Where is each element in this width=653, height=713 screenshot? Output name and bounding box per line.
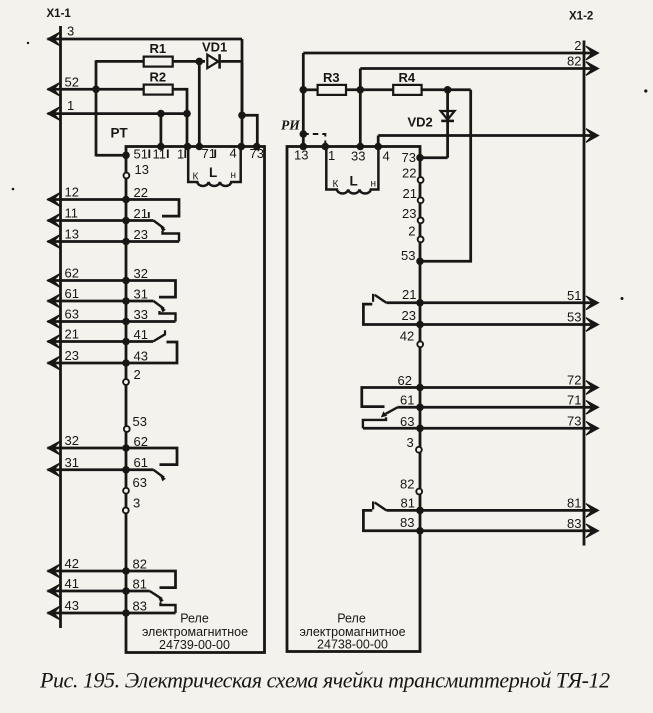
svg-text:33: 33	[351, 149, 365, 164]
wire 63 to X1-2 (73)	[420, 427, 592, 430]
svg-text:61: 61	[65, 286, 79, 301]
svg-text:72: 72	[567, 373, 581, 388]
junction VD2 anode	[444, 86, 452, 94]
wire row 32 bus to relay PT	[48, 447, 127, 450]
arrow X1-1 pin 12	[48, 193, 61, 207]
svg-text:VD2: VD2	[408, 115, 433, 130]
junction pin 71 top	[196, 143, 204, 151]
svg-text:63: 63	[133, 475, 147, 490]
svg-text:23: 23	[134, 227, 148, 242]
pin 42 circle	[417, 341, 423, 347]
contact 41 blade normally-open	[126, 340, 153, 343]
wire row 61 bus to relay PT	[48, 300, 127, 303]
junction pin 1 top	[184, 143, 192, 151]
svg-text:13: 13	[294, 148, 308, 163]
svg-text:53: 53	[401, 248, 415, 263]
arrow X1-2 72	[586, 381, 599, 395]
junction R3 feed	[300, 86, 308, 94]
speck	[621, 297, 624, 300]
junction pin 61 rail	[416, 404, 424, 412]
wire row 11 bus to relay PT	[48, 219, 127, 222]
junction pin 33 top	[357, 143, 365, 151]
junction pin 73 rail	[416, 154, 424, 162]
wire row 42 bus to relay PT	[48, 570, 127, 573]
wire row 43 bus to relay PT	[48, 612, 127, 615]
arrow X1-1 pin 23	[48, 356, 61, 370]
wire row 13 bus to relay PT	[48, 240, 127, 243]
wire row 31 bus to relay PT	[48, 468, 127, 471]
arrow X1-1 pin 43	[48, 606, 61, 620]
contact group 62/61 - wire 62 hook	[126, 448, 177, 465]
wire net 1 horizontal	[48, 112, 189, 115]
contact group 32/31/33 - wire 32 hook	[126, 281, 176, 298]
wire net 3 corner down to VD1 cathode	[241, 39, 244, 115]
junction pin 41	[122, 338, 130, 346]
pin 23 circle	[418, 218, 424, 224]
contact 63 plate (RI)	[363, 427, 420, 430]
svg-text:63: 63	[400, 414, 414, 429]
diode VD1	[207, 55, 218, 69]
svg-text:31: 31	[65, 455, 79, 470]
arrow X1-2 pin4 net	[586, 129, 599, 143]
wire VD1 cathode to corner	[221, 60, 242, 63]
svg-text:2: 2	[574, 38, 581, 53]
svg-text:41: 41	[65, 576, 79, 591]
arrow X1-1 pin 31	[48, 463, 61, 477]
arrow X1-1 pin 61	[48, 294, 61, 308]
wire pin 11 vertical	[160, 114, 163, 147]
svg-text:81: 81	[401, 496, 415, 511]
svg-text:21: 21	[65, 327, 79, 342]
junction pin 21 rail	[416, 299, 424, 307]
relay RI box outline	[287, 147, 420, 652]
svg-text:R1: R1	[150, 41, 167, 56]
svg-text:К: К	[193, 172, 199, 183]
svg-text:4: 4	[230, 146, 237, 161]
junction pin 81 rail	[416, 507, 424, 515]
wire 83 to X1-2	[420, 529, 592, 532]
junction pin 23 rail	[416, 321, 424, 329]
contact 83 plate	[126, 612, 176, 615]
arrow X1-1 pin 21	[48, 335, 61, 349]
svg-text:12: 12	[65, 185, 79, 200]
junction pin 82	[122, 567, 130, 575]
svg-text:62: 62	[134, 434, 148, 449]
junction net52/R1 feed	[92, 86, 100, 94]
wire net 82 horizontal	[360, 67, 592, 70]
resistor R3	[318, 85, 346, 95]
contact 21 blade	[126, 219, 154, 222]
svg-text:51: 51	[567, 288, 581, 303]
contact 81 blade	[126, 590, 150, 593]
svg-text:73: 73	[567, 413, 581, 428]
contact 83 plate (RI)	[363, 510, 420, 530]
svg-text:R3: R3	[323, 70, 340, 85]
svg-text:82: 82	[133, 557, 147, 572]
pin 63 circle	[123, 488, 129, 494]
wire R1 feed top horizontal	[96, 60, 144, 63]
contact 61 blade (RI)	[398, 406, 421, 409]
arrow X1-2 73	[586, 422, 599, 436]
svg-text:н: н	[231, 170, 237, 181]
speck	[644, 89, 647, 92]
wire net 2 horizontal to X1-2	[303, 52, 592, 55]
svg-text:73: 73	[402, 150, 416, 165]
arrow X1-1 pin 13	[48, 235, 61, 249]
junction pin 33	[122, 318, 130, 326]
wire R3 feed	[303, 88, 317, 91]
junction pin 13 top	[300, 143, 308, 151]
svg-text:21: 21	[134, 206, 148, 221]
junction net 82 / pin 33	[357, 86, 365, 94]
contact 61 blade	[126, 468, 154, 471]
svg-text:51: 51	[134, 147, 148, 162]
junction pin 1 top	[322, 143, 330, 151]
arrow X1-1 pin 63	[48, 315, 61, 329]
svg-text:2: 2	[134, 367, 141, 382]
svg-text:L: L	[209, 165, 217, 180]
wire R1 feed vertical	[95, 60, 98, 156]
svg-text:11: 11	[65, 206, 79, 221]
pin tick 51	[148, 150, 150, 159]
svg-text:23: 23	[402, 206, 416, 221]
junction pin 83 rail	[416, 527, 424, 535]
bus X1-2 vertical	[583, 41, 586, 546]
svg-text:2: 2	[408, 224, 415, 239]
wire row 23 bus to relay PT	[48, 362, 127, 365]
wire VD1 cathode vertical to pin 4	[241, 61, 244, 146]
junction pin 53 rail	[416, 258, 424, 266]
svg-text:23: 23	[402, 308, 416, 323]
wire 61 to X1-2 (71)	[420, 406, 592, 409]
svg-text:83: 83	[567, 516, 581, 531]
arrow X1-1 pin 62	[48, 274, 61, 288]
wire R4 right	[422, 88, 471, 91]
svg-text:43: 43	[134, 349, 148, 364]
pin tick 21	[148, 212, 150, 218]
svg-text:К: К	[333, 179, 339, 190]
arrow X1-1 pin 11	[48, 214, 61, 228]
svg-text:23: 23	[65, 348, 79, 363]
svg-text:24739-00-00: 24739-00-00	[159, 638, 230, 652]
contact 23 plate	[126, 240, 179, 243]
contact 81 blade (RI)	[386, 509, 420, 512]
arrow X1-1 pin 1	[48, 107, 61, 121]
svg-text:53: 53	[133, 414, 147, 429]
junction pin 62	[122, 444, 130, 452]
svg-text:42: 42	[65, 556, 79, 571]
svg-text:Реле: Реле	[337, 612, 366, 626]
junction VD1 anode / pin 71	[196, 58, 204, 66]
wire 81 to X1-2	[420, 509, 592, 512]
svg-text:13: 13	[65, 227, 79, 242]
svg-text:63: 63	[65, 307, 79, 322]
wire 21 to X1-2 (51)	[420, 301, 592, 304]
svg-text:22: 22	[402, 166, 416, 181]
svg-text:41: 41	[134, 327, 148, 342]
svg-text:РИ: РИ	[281, 118, 300, 133]
svg-text:82: 82	[567, 54, 581, 69]
svg-text:33: 33	[134, 307, 148, 322]
junction pin 63 rail	[416, 425, 424, 433]
wire R1 to VD1	[173, 60, 205, 63]
svg-text:1: 1	[67, 98, 74, 113]
svg-text:X1-1: X1-1	[47, 8, 72, 20]
svg-text:83: 83	[400, 515, 414, 530]
svg-text:81: 81	[133, 577, 147, 592]
dashed link RI to pin 1	[303, 134, 325, 147]
arrow X1-1 pin 3	[48, 32, 61, 46]
diode VD2	[441, 111, 455, 120]
junction pin 23	[122, 238, 130, 246]
junction RI dashed tap	[300, 130, 308, 138]
svg-text:62: 62	[398, 373, 412, 388]
junction pin 22	[122, 196, 130, 204]
svg-text:VD1: VD1	[202, 40, 227, 55]
svg-text:22: 22	[134, 185, 148, 200]
junction pin 83	[122, 609, 130, 617]
svg-text:53: 53	[567, 310, 581, 325]
junction pin 21	[122, 217, 130, 225]
contact group 62/61/63 (RI) - wire 62 hook	[362, 388, 420, 407]
svg-text:3: 3	[133, 496, 140, 511]
svg-text:83: 83	[133, 599, 147, 614]
junction net1 / pin 11 branch	[157, 110, 165, 118]
junction pin 73 top	[253, 143, 261, 151]
relay PT box outline	[126, 147, 265, 653]
arrow X1-2 83	[586, 524, 599, 538]
svg-text:н: н	[371, 179, 377, 190]
svg-text:81: 81	[567, 495, 581, 510]
svg-text:82: 82	[400, 477, 414, 492]
contact 23 plate (RI)	[363, 304, 420, 324]
bus X1-1 vertical	[59, 26, 62, 628]
pin 2 circle	[123, 379, 129, 385]
pin 2 circle (RI)	[418, 237, 424, 243]
svg-text:4: 4	[383, 149, 390, 164]
contact 21 blade (RI)	[386, 301, 420, 304]
svg-text:R4: R4	[399, 70, 416, 85]
resistor R4	[393, 85, 421, 95]
svg-text:21: 21	[403, 186, 417, 201]
wire pin 4 net horizontal to X1-2	[378, 134, 592, 137]
pin 53 circle	[124, 426, 130, 432]
pin 13 circle	[124, 173, 130, 179]
svg-text:71: 71	[202, 146, 216, 161]
arrow X1-2 2	[586, 46, 599, 60]
svg-text:62: 62	[65, 266, 79, 281]
pin 21 circle	[418, 197, 424, 203]
svg-text:L: L	[350, 174, 358, 189]
pin tick 11	[167, 150, 169, 159]
wire VD2 vertical	[446, 90, 449, 158]
wire row 21 bus to relay PT	[48, 340, 127, 343]
svg-text:3: 3	[407, 435, 414, 450]
wire branch to pin 73	[242, 115, 257, 146]
junction pin4/pin73 branch	[238, 112, 246, 120]
svg-text:43: 43	[65, 598, 79, 613]
junction pin 81	[122, 587, 130, 595]
wire row 63 bus to relay PT	[48, 320, 127, 323]
wire pin51 feed horizontal	[96, 154, 126, 157]
arrow X1-2 81	[586, 504, 599, 518]
svg-text:R2: R2	[150, 70, 167, 85]
wire R2 right to net1	[173, 89, 187, 146]
svg-text:РТ: РТ	[111, 126, 129, 141]
junction pin 51	[122, 152, 130, 160]
speck	[12, 188, 15, 191]
junction pin 43	[122, 359, 130, 367]
resistor R1	[144, 57, 173, 67]
svg-text:21: 21	[402, 287, 416, 302]
arrow X1-1 pin 41	[48, 584, 61, 598]
contact 33 plate	[126, 320, 176, 323]
speck	[27, 42, 29, 44]
pin 3 circle (RI)	[416, 447, 422, 453]
arrow X1-2 51	[586, 296, 599, 310]
svg-text:61: 61	[134, 455, 148, 470]
svg-text:1: 1	[177, 147, 184, 162]
arrow X1-2 82	[586, 62, 599, 76]
svg-text:электромагнитное: электромагнитное	[142, 625, 248, 639]
resistor R2	[144, 85, 173, 95]
wire VD2 to pin 73	[420, 156, 448, 159]
svg-text:61: 61	[400, 393, 414, 408]
pin 22 circle	[418, 177, 424, 183]
arrow X1-2 71	[586, 401, 599, 415]
relay PT coil L	[188, 147, 241, 186]
contact group 22/21/23 - wire 22 hook	[126, 200, 179, 217]
svg-text:42: 42	[400, 329, 414, 344]
junction pin 4 top	[374, 143, 382, 151]
arrow X1-1 pin 32	[48, 441, 61, 455]
junction net1 / pin 1	[183, 110, 191, 118]
junction pin 4 top	[238, 143, 246, 151]
svg-text:31: 31	[134, 287, 148, 302]
wire 23 to X1-2 (53)	[420, 323, 592, 326]
svg-text:X1-2: X1-2	[569, 11, 593, 23]
svg-text:52: 52	[65, 74, 79, 89]
pin 3 circle	[123, 508, 129, 514]
arrow X1-1 pin 52	[48, 83, 61, 97]
junction pin 32	[122, 277, 130, 285]
wire row 41 bus to relay PT	[48, 590, 127, 593]
junction pin 61	[122, 466, 130, 474]
wire pin 71 vertical	[198, 61, 201, 146]
contact 31 blade	[126, 300, 154, 303]
wire net82 corner down to pin 33	[359, 69, 362, 147]
svg-text:32: 32	[134, 266, 148, 281]
wire R3 to R4	[346, 88, 393, 91]
contact group 82/81/83 - wire 82 hook	[126, 571, 176, 588]
pin 82 circle (RI)	[416, 489, 422, 495]
wire net 3 horizontal	[48, 38, 243, 41]
arrow X1-2 53	[586, 318, 599, 332]
pin tick 71	[214, 150, 216, 158]
wire net2 corner down / R3 feed	[302, 53, 305, 147]
wire pin4 corner down	[377, 136, 380, 147]
wire row 12 bus to relay PT	[48, 198, 127, 201]
svg-text:24738-00-00: 24738-00-00	[317, 638, 388, 652]
pin tick 1	[184, 150, 186, 159]
svg-text:Реле: Реле	[180, 612, 209, 626]
wire row 62 bus to relay PT	[48, 279, 127, 282]
wire R4 to pin 53 vertical	[420, 90, 471, 261]
junction pin 11 top	[157, 143, 165, 151]
wire net 52 horizontal	[48, 88, 144, 91]
relay RI coil L	[326, 147, 378, 194]
svg-text:71: 71	[567, 392, 581, 407]
svg-text:32: 32	[65, 433, 79, 448]
contact 43 plate	[126, 342, 177, 363]
svg-text:13: 13	[135, 162, 149, 177]
svg-text:Рис. 195. Электрическая схема: Рис. 195. Электрическая схема ячейки тра…	[39, 668, 610, 693]
svg-text:1: 1	[328, 148, 335, 163]
arrow X1-1 pin 42	[48, 564, 61, 578]
wire 62 to X1-2 (72)	[420, 386, 592, 389]
svg-text:3: 3	[67, 24, 74, 39]
junction pin 62 rail	[416, 384, 424, 392]
junction pin 31	[122, 297, 130, 305]
